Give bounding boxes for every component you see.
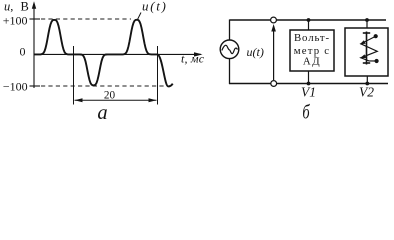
wire waveform u(t) curve [35,20,173,87]
node junction V2 bottom [365,82,369,86]
svg-text:0: 0 [20,45,26,59]
svg-text:+100: +100 [3,14,28,28]
node label voltmeter text [294,32,331,68]
node junction V2 top [365,18,369,22]
node dashed +100 level [41,18,131,20]
svg-text:u(t): u(t) [247,45,264,59]
node dashed -100 level [41,85,168,87]
node dimension line 20 ms [75,98,157,102]
svg-text:−100: −100 [3,80,28,94]
source G1 u(t) generator [220,40,239,59]
svg-text:u(t): u(t) [142,0,168,14]
node extension line left [73,46,75,105]
wire V1 bottom [308,71,310,84]
svg-text:АД: АД [303,56,321,68]
svg-text:В: В [21,0,29,14]
svg-text:V2: V2 [359,85,374,100]
wire V2 bottom [366,76,368,84]
node axis-y (u axis) [32,1,36,88]
node junction V1 bottom [307,82,311,86]
node terminal top [271,17,277,23]
svg-text:u,: u, [4,0,13,14]
svg-text:V1: V1 [301,85,316,100]
node junction V1 top [307,18,311,22]
wire V2 top [366,20,368,28]
svg-text:а: а [97,102,107,123]
svg-text:б: б [302,101,310,123]
node extension line right [157,46,159,105]
node axis-x (t axis) [34,52,203,56]
wire source left lower [229,58,231,84]
svg-text:t, мс: t, мс [181,52,205,66]
svg-text:20: 20 [104,90,116,102]
electrostatic voltmeter symbol [360,32,379,65]
wire bottom rail [229,83,388,85]
svg-text:Вольт-: Вольт- [294,32,330,44]
node tick -100 [30,85,41,87]
wire V1 top [308,20,310,30]
voltmeter V1 box [290,30,334,71]
wire top rail [230,19,387,21]
wire source left upper [229,20,231,41]
voltmeter V2 box [345,28,388,76]
node terminal bottom [271,81,277,87]
node label u(t) graph [138,0,168,20]
node tick +100 [30,18,41,20]
node voltage arrow u(t) [271,24,276,80]
